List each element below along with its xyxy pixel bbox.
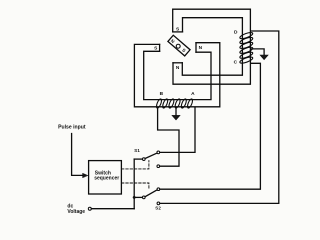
- svg-text:C: C: [234, 59, 238, 65]
- coil B-A (bottom horizontal coil): [155, 98, 193, 108]
- coil D-C (right vertical coil): [239, 31, 253, 64]
- switch S2 contact lower: [157, 202, 160, 205]
- svg-text:B: B: [160, 91, 164, 97]
- core 2 right pole tip closure: [195, 43, 197, 53]
- core 2 left pole tip closure: [159, 44, 161, 51]
- wire A: coil right end down to S1 upper contact: [160, 108, 195, 153]
- svg-text:N: N: [199, 45, 203, 51]
- flux arrow right (down arrow beside coil D-C): [251, 49, 264, 56]
- svg-text:A: A: [191, 91, 195, 97]
- core 1 (top S pole to bottom N pole, outer boundary): [173, 9, 251, 84]
- switch S1 contact lower: [157, 165, 160, 168]
- dashed linkage upper (sequencer to S1): [122, 161, 149, 169]
- core 1 bottom pole tip closure: [173, 62, 182, 64]
- switch S2 arm: [145, 190, 157, 197]
- rotor label S: [181, 47, 187, 53]
- wire S1 pivot to common: [134, 158, 142, 160]
- wire D: coil top to right side down to S2 lower contact: [160, 31, 279, 203]
- svg-text:S2: S2: [155, 205, 161, 210]
- wire B: coil left end down, jog right, down to S1 lower contact: [158, 108, 179, 167]
- switch S1 arm: [145, 153, 157, 158]
- switch S2 contact upper: [157, 188, 160, 191]
- core 1 inner boundary: [182, 18, 242, 75]
- dc supply wire: [91, 208, 134, 210]
- svg-text:S1: S1: [134, 148, 140, 153]
- core 1 top pole tip closure: [173, 31, 183, 33]
- svg-text:D: D: [234, 29, 238, 35]
- pulse input arrowhead: [83, 173, 88, 177]
- switch S1 contact upper: [157, 151, 160, 154]
- core 2 (left S pole to right N pole, outer boundary): [134, 43, 219, 107]
- rotor pivot circle: [176, 44, 180, 48]
- switch S1 pivot: [142, 158, 145, 161]
- rotor (tilted bar magnet): [168, 35, 190, 56]
- svg-text:S: S: [181, 47, 187, 53]
- common wire vertical: [133, 159, 135, 209]
- flux arrow bottom (down arrow below coil B-A): [175, 107, 177, 116]
- rotor label N: [170, 38, 176, 44]
- svg-text:sequencer: sequencer: [94, 176, 119, 182]
- wire S2 pivot to common: [134, 196, 142, 198]
- pulse input wire: [72, 134, 83, 176]
- dashed linkage lower (sequencer to S2): [122, 183, 149, 190]
- switch sequencer box: [89, 161, 122, 194]
- core 2 inner boundary: [144, 51, 211, 99]
- wire C: coil bottom right then down to S2 upper contact: [160, 63, 261, 189]
- dc terminal: [88, 207, 91, 210]
- svg-text:N: N: [176, 65, 180, 71]
- switch S2 pivot: [142, 196, 145, 199]
- junction dot common/S2: [133, 196, 136, 199]
- svg-text:Voltage: Voltage: [67, 209, 85, 215]
- svg-text:Pulse input: Pulse input: [58, 125, 86, 131]
